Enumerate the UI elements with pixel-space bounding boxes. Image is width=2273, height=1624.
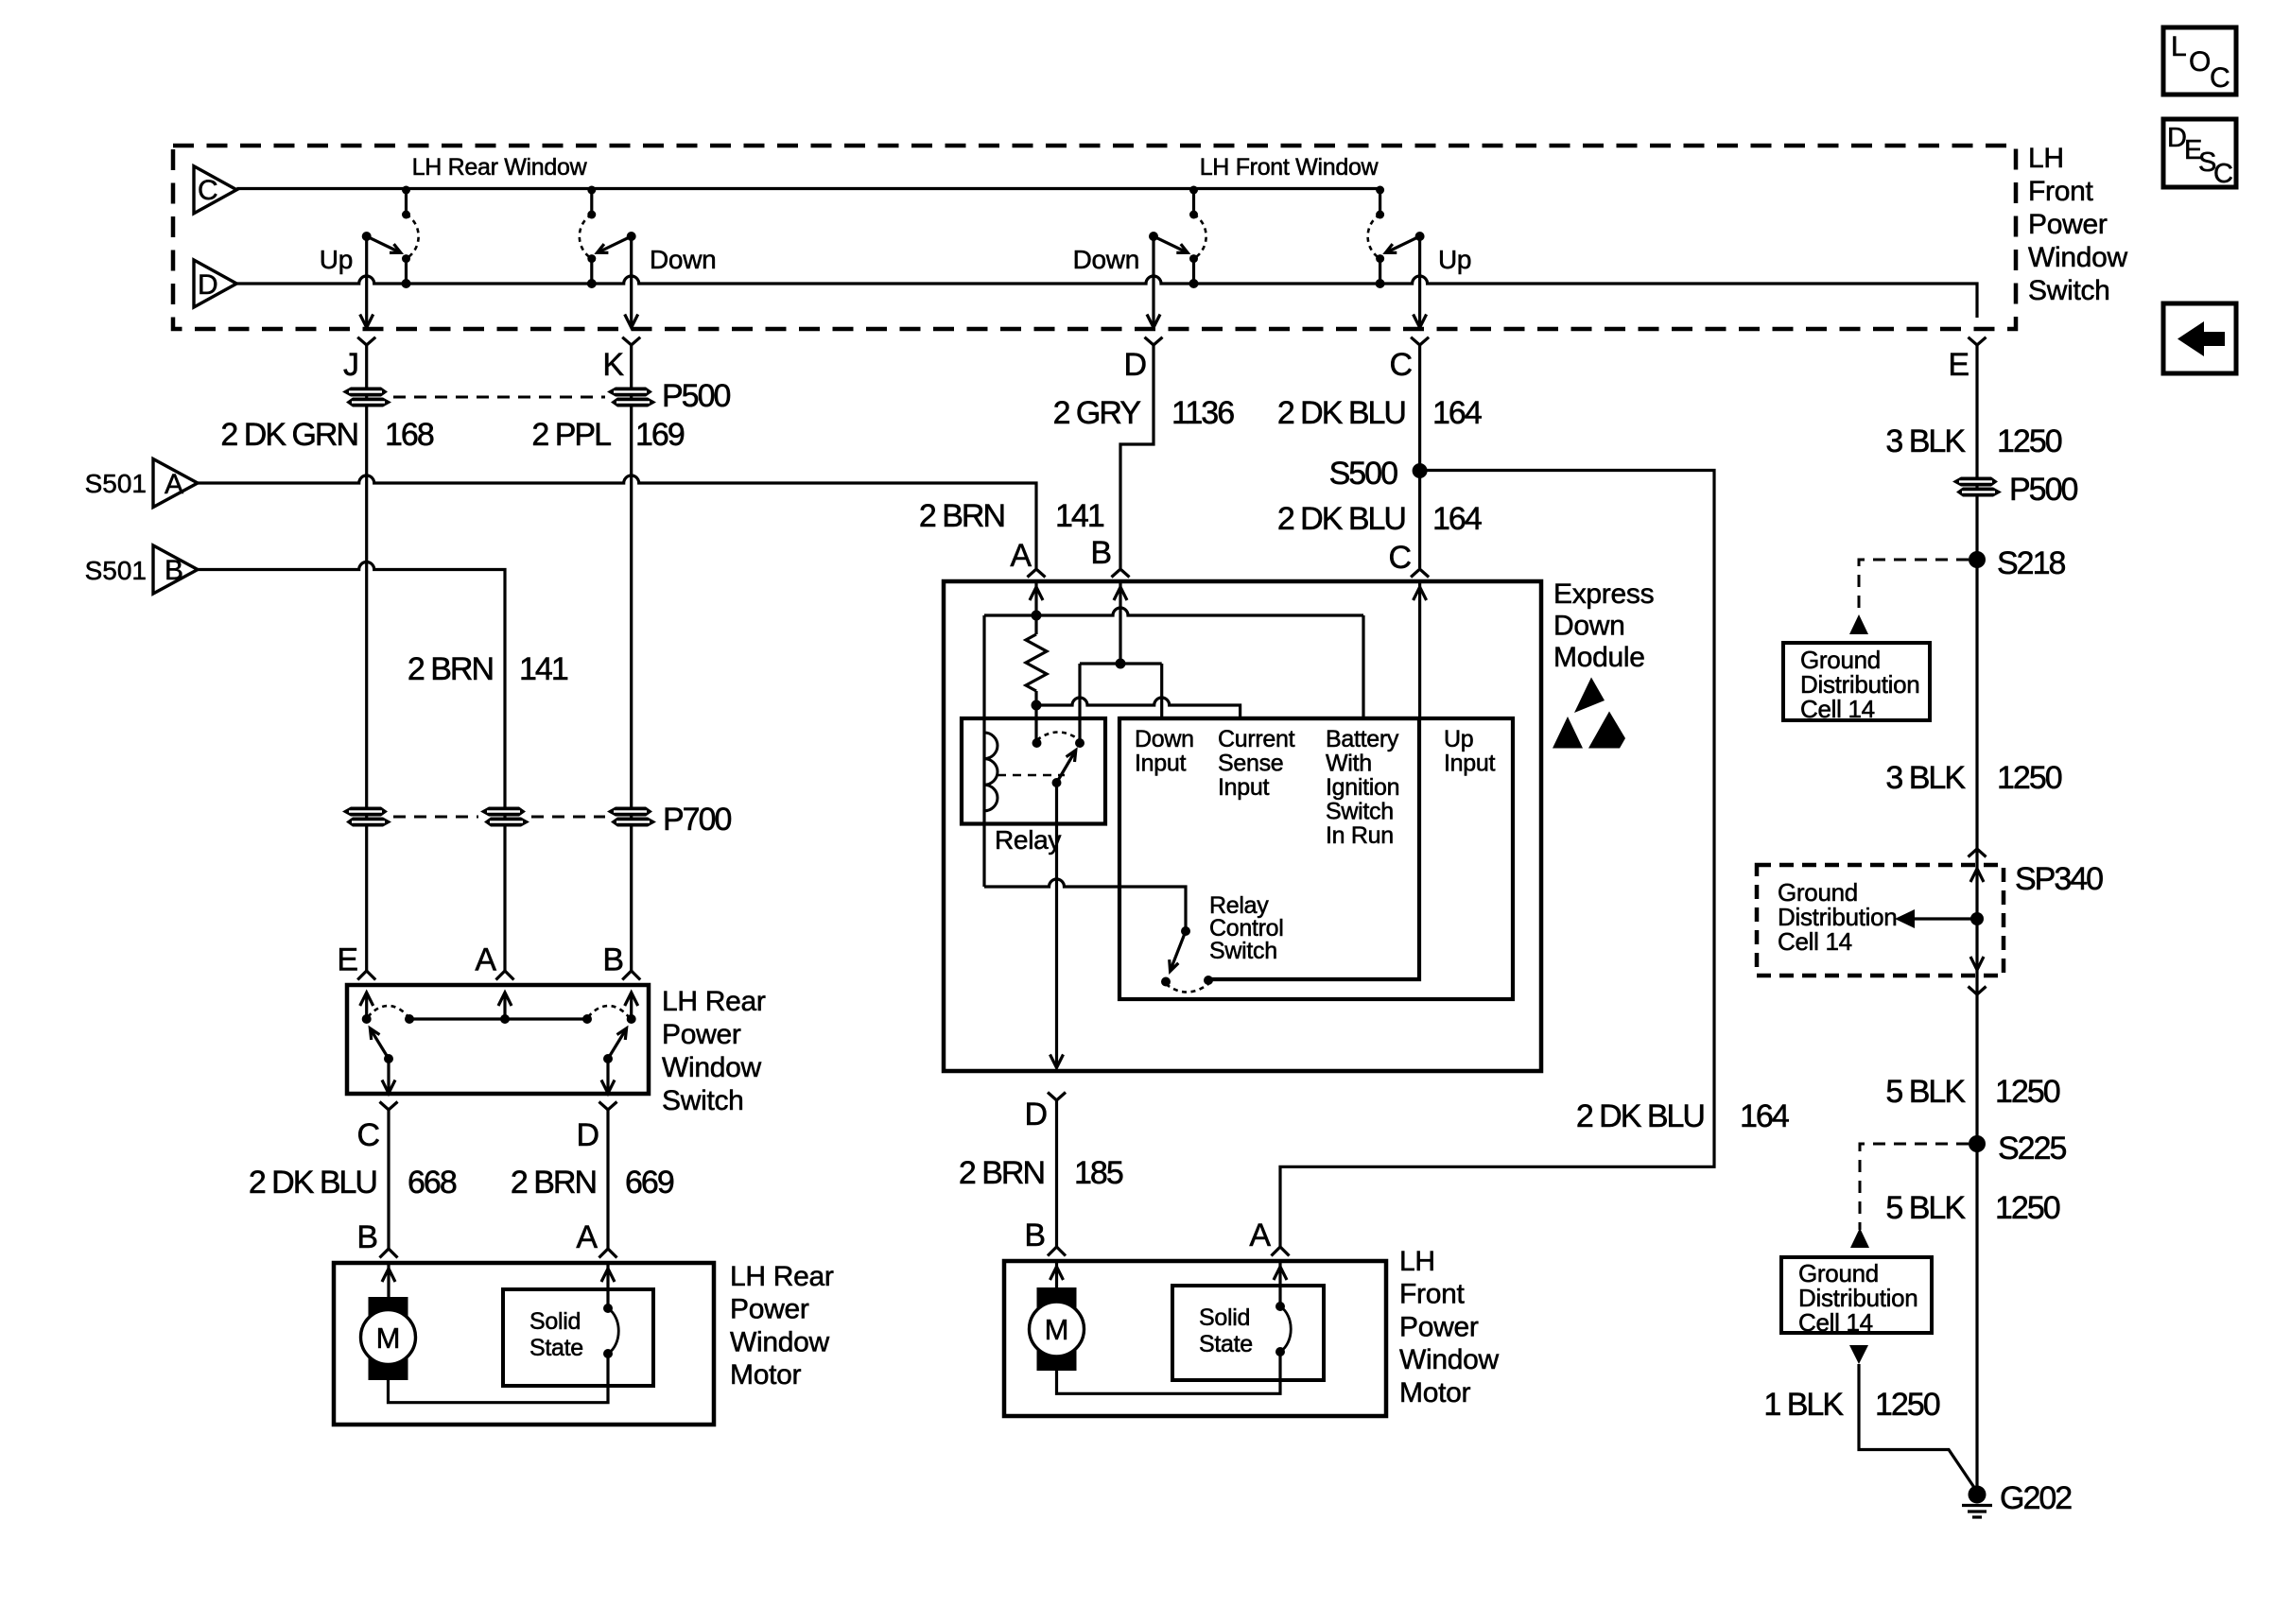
svg-text:141: 141 [1055, 498, 1104, 534]
svg-text:2 DK GRN: 2 DK GRN [220, 417, 357, 453]
wire: S501-B feed to rear switch A input [198, 562, 505, 972]
svg-text:1250: 1250 [1997, 423, 2062, 459]
label: 1 BLK 1250 [1763, 1387, 1939, 1423]
svg-text:J: J [343, 347, 357, 383]
terminal A of rear motor [576, 1219, 616, 1258]
svg-text:Power: Power [2028, 209, 2108, 240]
terminal B of module [1090, 535, 1129, 578]
relay contacts and armature [1032, 733, 1085, 788]
wire: rear switch D to motor A [606, 1110, 609, 1249]
module internal: A entry arrow and resistor [1026, 581, 1047, 743]
svg-text:Relay: Relay [995, 825, 1061, 855]
connector P700 (J wire) [342, 807, 391, 827]
svg-text:Switch: Switch [2028, 275, 2110, 306]
wire: front C drop to module C [1418, 345, 1421, 568]
wire: D bus (lower horizontal with hops, turning down to E) [236, 276, 1977, 318]
svg-text:Input: Input [1135, 751, 1186, 777]
svg-text:L: L [2171, 31, 2186, 62]
svg-text:Battery: Battery [1326, 726, 1399, 752]
svg-text:669: 669 [625, 1165, 674, 1201]
splice S218 [1969, 545, 2065, 581]
svg-text:Power: Power [1399, 1311, 1479, 1342]
label: 2 BRN 141 (left) [408, 651, 568, 687]
svg-text:Down: Down [1135, 726, 1194, 752]
svg-text:A: A [475, 942, 496, 978]
ground G202 [1962, 1480, 2072, 1517]
label: 2 DK BLU 668 [249, 1165, 457, 1201]
svg-text:Cell 14: Cell 14 [1798, 1308, 1873, 1337]
DESC reference box [2163, 119, 2236, 189]
LOC reference box [2163, 27, 2236, 95]
wire: E drop full right column [1975, 345, 1978, 1489]
rear motor bottom loop wire [389, 1354, 609, 1403]
terminal chevron above SP340 [1969, 849, 1987, 857]
switch: LH rear Down (pivot K) [580, 186, 717, 328]
splice SP340 dashed box [1757, 861, 2103, 976]
svg-text:1136: 1136 [1171, 395, 1234, 431]
svg-text:A: A [576, 1219, 598, 1255]
dashed links between P700 halves [393, 816, 478, 819]
svg-text:2 BRN: 2 BRN [408, 651, 493, 687]
terminal A of front motor [1249, 1218, 1289, 1256]
svg-text:2 DK BLU: 2 DK BLU [1277, 395, 1405, 431]
terminal E chevron and label [1948, 337, 1986, 383]
svg-text:Down: Down [1073, 245, 1139, 274]
label: 2 DK BLU 164 (below S500) [1277, 501, 1482, 537]
label: 3 BLK 1250 (lower) [1885, 760, 2061, 796]
connector P500 (E wire) [1952, 477, 2002, 497]
svg-text:Motor: Motor [730, 1359, 801, 1391]
connector P500 (J wire) [342, 388, 391, 407]
label: 2 BRN 185 [959, 1155, 1123, 1191]
svg-text:In Run: In Run [1326, 822, 1394, 849]
module internal function box (inner) [1119, 718, 1419, 979]
label: LH Rear Power Window Motor [730, 1261, 834, 1391]
svg-text:A: A [165, 469, 183, 500]
terminal B of rear switch [602, 942, 640, 980]
wire: S501-A feed to module A input [198, 475, 1036, 568]
terminal K chevron and label [602, 337, 640, 383]
svg-text:Switch: Switch [1209, 938, 1277, 964]
terminal J chevron and label [343, 337, 375, 383]
label: 2 GRY 1136 [1053, 395, 1235, 431]
svg-text:B: B [356, 1219, 376, 1255]
switch: LH rear Up (pivot J) [320, 186, 419, 328]
wire: J drop from switch to P500 [365, 345, 368, 971]
svg-text:Cell 14: Cell 14 [1800, 695, 1875, 723]
svg-text:5 BLK: 5 BLK [1885, 1074, 1966, 1110]
svg-text:5 BLK: 5 BLK [1885, 1190, 1966, 1226]
switch: LH front Down (pivot D) [1073, 186, 1206, 328]
module internal function box (outer) [1119, 718, 1513, 999]
svg-text:S225: S225 [1998, 1131, 2066, 1166]
connector pin C triangle [194, 166, 236, 214]
wire: module D to front motor B [1055, 1100, 1058, 1247]
svg-text:2 PPL: 2 PPL [531, 417, 611, 453]
svg-text:C: C [2210, 62, 2230, 94]
svg-text:M: M [1045, 1313, 1069, 1346]
svg-text:Module: Module [1553, 642, 1645, 673]
connector P700 (K wire) [607, 807, 656, 827]
terminal A of rear switch [475, 942, 513, 980]
relay coil [984, 733, 998, 811]
module internal: C entry arrow [1414, 581, 1427, 718]
svg-text:2 BRN: 2 BRN [919, 498, 1004, 534]
module internal: B entry arrow [1114, 581, 1127, 669]
rear motor solid state switch [503, 1263, 653, 1386]
svg-text:169: 169 [635, 417, 685, 453]
svg-text:2 BRN: 2 BRN [511, 1165, 596, 1201]
label: 5 BLK 1250 (lower) [1885, 1190, 2059, 1226]
svg-text:State: State [529, 1335, 583, 1361]
svg-text:1 BLK: 1 BLK [1763, 1387, 1844, 1423]
svg-text:2 DK BLU: 2 DK BLU [1277, 501, 1405, 537]
svg-text:Front: Front [1399, 1279, 1465, 1310]
rear switch internals [360, 993, 638, 1094]
svg-text:185: 185 [1074, 1155, 1123, 1191]
svg-text:M: M [376, 1322, 401, 1355]
svg-text:Power: Power [662, 1019, 741, 1050]
svg-text:Switch: Switch [1326, 799, 1394, 825]
svg-text:2 DK BLU: 2 DK BLU [1576, 1098, 1704, 1134]
label: Express Down Module [1553, 579, 1654, 673]
label: 2 DK GRN 168 [220, 417, 433, 453]
svg-text:With: With [1326, 751, 1372, 777]
svg-text:S501: S501 [85, 556, 147, 585]
back-arrow navigation box [2163, 303, 2236, 373]
dashed link between P500 halves [393, 396, 605, 399]
terminal B of front motor [1024, 1218, 1066, 1256]
terminal C below rear switch [356, 1102, 397, 1154]
svg-text:Up: Up [1438, 245, 1471, 274]
svg-text:A: A [1249, 1218, 1271, 1253]
svg-text:A: A [1010, 538, 1032, 574]
relay coil-armature dashed link [998, 774, 1065, 777]
svg-text:Cell 14: Cell 14 [1778, 927, 1852, 956]
svg-text:B: B [1024, 1218, 1044, 1253]
LH Rear Power Window Motor box [334, 1263, 714, 1425]
terminal D chevron and label [1123, 337, 1162, 383]
svg-text:LH Front Window: LH Front Window [1200, 154, 1379, 181]
svg-text:LH Rear Window: LH Rear Window [412, 154, 588, 181]
svg-text:C: C [356, 1117, 379, 1153]
svg-text:B: B [1090, 535, 1110, 571]
svg-text:B: B [165, 555, 183, 586]
terminal B of rear motor [356, 1219, 397, 1258]
svg-text:164: 164 [1432, 501, 1482, 537]
relay box [962, 718, 1105, 824]
module internal: current sense wire with hops [1036, 698, 1241, 718]
terminal D below rear switch [576, 1102, 616, 1154]
label: 2 PPL 169 [531, 417, 684, 453]
svg-text:3 BLK: 3 BLK [1885, 423, 1966, 459]
svg-text:S218: S218 [1997, 545, 2065, 581]
label: Up Input [1444, 726, 1495, 777]
svg-text:1250: 1250 [1997, 760, 2062, 796]
splice S225 [1969, 1131, 2066, 1166]
connector P700 (A wire) [480, 807, 529, 827]
label: Battery With Ignition Switch In Run [1326, 726, 1399, 849]
svg-text:P700: P700 [663, 802, 731, 838]
svg-text:Up: Up [1444, 726, 1473, 752]
wire: rear switch C to motor B [387, 1110, 390, 1249]
terminal E of rear switch [337, 942, 375, 980]
svg-text:LH: LH [1399, 1246, 1435, 1277]
svg-text:D: D [1123, 347, 1145, 383]
svg-text:K: K [602, 347, 624, 383]
svg-text:C: C [198, 175, 218, 206]
connector P500 (K wire) [607, 388, 656, 407]
svg-text:164: 164 [1432, 395, 1482, 431]
terminal C chevron and label [1389, 337, 1429, 383]
svg-text:D: D [198, 269, 218, 301]
label: LH Rear Power Window Switch [662, 986, 766, 1116]
wire: front D drop with jog to module B [1120, 345, 1154, 568]
svg-text:Sense: Sense [1218, 751, 1283, 777]
front motor internals: motor M [1030, 1261, 1084, 1371]
terminal C of module [1388, 540, 1429, 578]
svg-text:P500: P500 [662, 378, 730, 414]
label: 2 BRN 141 (module A) [919, 498, 1104, 534]
svg-text:D: D [1024, 1097, 1046, 1132]
relay control switch [1161, 926, 1213, 993]
svg-text:668: 668 [408, 1165, 457, 1201]
terminal chevron below SP340 [1969, 987, 1987, 995]
wire: S500 branch to front motor A [1280, 471, 1714, 1248]
svg-text:B: B [602, 942, 622, 978]
module internal: top bus wire [984, 608, 1363, 615]
splice S500 [1329, 456, 1428, 492]
svg-text:Ignition: Ignition [1326, 774, 1399, 801]
svg-text:State: State [1199, 1331, 1253, 1357]
switch: LH front Up (pivot C) [1368, 186, 1472, 328]
svg-text:Current: Current [1218, 726, 1295, 752]
label: 3 BLK 1250 (upper) [1885, 423, 2061, 459]
SP340 internals [1895, 869, 1984, 970]
svg-text:Switch: Switch [662, 1085, 744, 1116]
label: Relay Control Switch [1209, 892, 1284, 964]
Express Down Module box [944, 581, 1541, 1071]
Ground Distribution Cell 14 box (lower) [1781, 1257, 1932, 1337]
svg-text:LH Rear: LH Rear [662, 986, 766, 1017]
svg-text:2 GRY: 2 GRY [1053, 395, 1141, 431]
connector S501 pin B triangle [85, 545, 198, 594]
rear motor internals: motor M [361, 1263, 416, 1380]
connector pin D triangle [194, 260, 236, 307]
LH Rear Power Window Switch box [347, 985, 649, 1094]
svg-text:Power: Power [730, 1294, 809, 1325]
module internal: relay bottom wire to control switch [984, 879, 1186, 931]
svg-text:Front: Front [2028, 176, 2093, 207]
svg-text:Window: Window [730, 1326, 830, 1357]
svg-text:C: C [1389, 347, 1412, 383]
label: 5 BLK 1250 (upper) [1885, 1074, 2059, 1110]
svg-text:Solid: Solid [529, 1308, 581, 1335]
component label: LH Front Power Window Switch [2028, 143, 2128, 306]
svg-text:S501: S501 [85, 469, 147, 498]
svg-text:168: 168 [385, 417, 434, 453]
wire: relay armature to module D output [1055, 783, 1058, 1067]
module internal: left branch down to relay coil [982, 615, 985, 887]
wire: ground distribution to G202 [1849, 1345, 1977, 1492]
svg-text:S500: S500 [1329, 456, 1397, 492]
LH Front Power Window Motor box [1004, 1261, 1386, 1416]
svg-text:141: 141 [519, 651, 568, 687]
svg-text:Down: Down [650, 245, 716, 274]
svg-text:SP340: SP340 [2015, 861, 2103, 897]
svg-text:Window: Window [2028, 242, 2128, 273]
svg-text:LH Rear: LH Rear [730, 1261, 834, 1292]
terminal A of module [1010, 538, 1045, 578]
svg-text:Up: Up [320, 245, 353, 274]
svg-text:G202: G202 [2000, 1480, 2072, 1516]
label: 2 BRN 669 [511, 1165, 674, 1201]
svg-text:3 BLK: 3 BLK [1885, 760, 1966, 796]
dashed branch: S225 to ground distribution [1850, 1144, 1969, 1248]
svg-text:Window: Window [662, 1052, 762, 1083]
front motor bottom loop wire [1057, 1352, 1281, 1393]
label inside SP340: Ground Distribution Cell 14 [1778, 878, 1897, 956]
module internal: B tee bar [1080, 664, 1162, 743]
label: Down Input [1135, 726, 1194, 777]
label: 2 DK BLU 164 (above S500) [1277, 395, 1482, 431]
svg-text:Window: Window [1399, 1344, 1500, 1375]
svg-text:Input: Input [1218, 774, 1269, 801]
svg-text:Express: Express [1553, 579, 1654, 610]
svg-text:1250: 1250 [1995, 1190, 2060, 1226]
svg-text:E: E [1948, 347, 1969, 383]
svg-text:2 BRN: 2 BRN [959, 1155, 1044, 1191]
svg-text:2 DK BLU: 2 DK BLU [249, 1165, 376, 1201]
label: 2 DK BLU 164 (right branch) [1576, 1098, 1789, 1134]
label: Current Sense Input [1218, 726, 1295, 801]
svg-text:D: D [576, 1117, 598, 1153]
front motor solid state switch [1172, 1261, 1324, 1380]
dashed branch: S218 to ground distribution [1849, 560, 1969, 634]
svg-text:Down: Down [1553, 611, 1625, 642]
label: LH Front Power Window Motor [1399, 1246, 1500, 1408]
svg-text:1250: 1250 [1995, 1074, 2060, 1110]
svg-text:164: 164 [1740, 1098, 1789, 1134]
LH Front Power Window Switch dashed box [173, 146, 2016, 329]
wire: K drop from switch to P500 [630, 345, 633, 971]
svg-text:P500: P500 [2009, 472, 2077, 508]
ESD sensitive device icon [1553, 678, 1625, 749]
svg-text:O: O [2189, 46, 2211, 78]
module internal: battery feed drop [1362, 615, 1364, 718]
svg-text:LH: LH [2028, 143, 2064, 174]
svg-text:C: C [1388, 540, 1411, 576]
svg-text:Input: Input [1444, 751, 1495, 777]
svg-text:Motor: Motor [1399, 1377, 1470, 1408]
svg-text:1250: 1250 [1875, 1387, 1940, 1423]
terminal D below module [1024, 1093, 1066, 1133]
connector S501 pin A triangle [85, 459, 198, 508]
svg-text:Solid: Solid [1199, 1304, 1250, 1331]
Ground Distribution Cell 14 box (upper) [1783, 643, 1930, 723]
wire: C bus (upper horizontal) [236, 187, 1379, 190]
svg-text:E: E [337, 942, 357, 978]
svg-text:C: C [2213, 159, 2233, 189]
